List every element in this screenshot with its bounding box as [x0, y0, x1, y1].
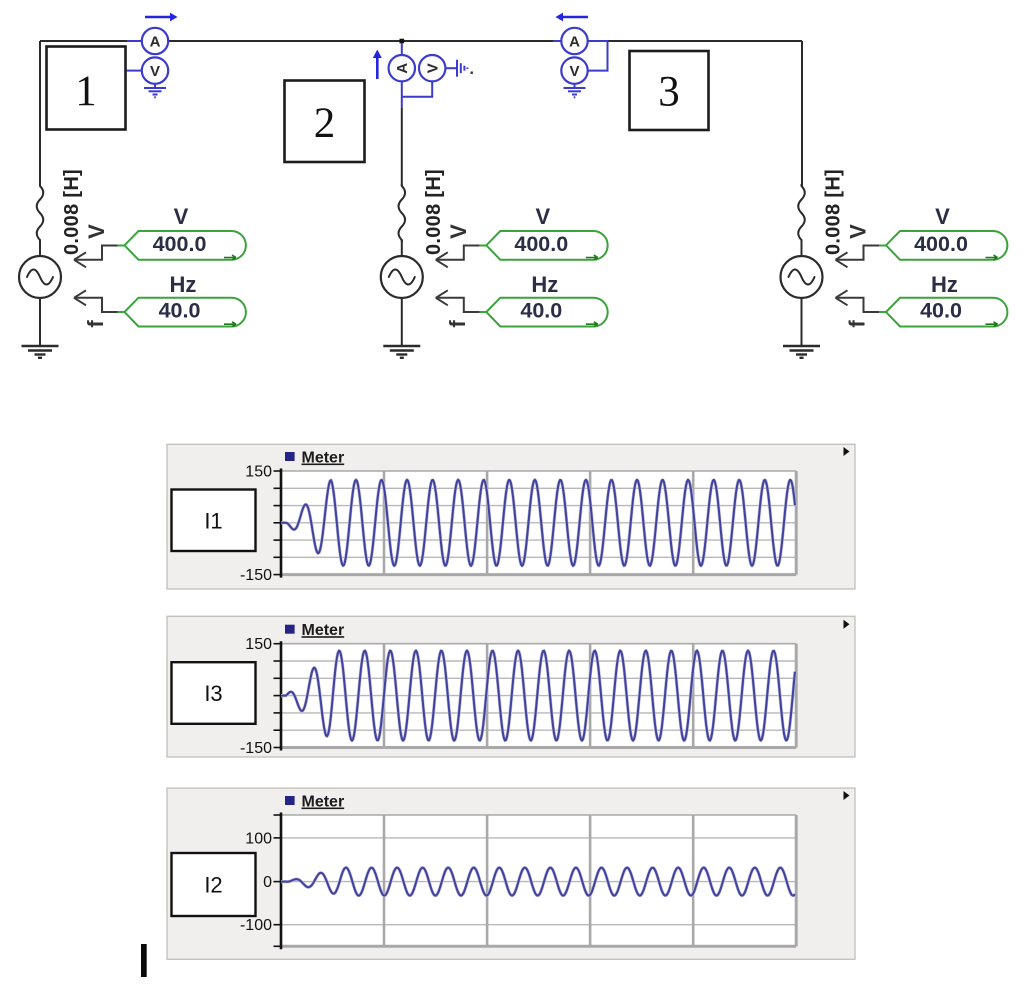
- meter panel I3: plot background: [281, 644, 796, 748]
- svg-text:-150: -150: [240, 740, 272, 757]
- waveform trace I2: [281, 868, 795, 896]
- svg-text:400.0: 400.0: [153, 232, 207, 256]
- subsystem box 2: [285, 81, 365, 163]
- svg-text:V: V: [935, 204, 950, 229]
- meter panel I2: signal label box: [172, 853, 256, 916]
- tiny dot right of sideways ground: [471, 72, 473, 74]
- blue current direction arrow (right) at meter 1: [145, 13, 178, 22]
- ground symbol branch 1: [22, 346, 59, 358]
- svg-text:V: V: [535, 204, 550, 229]
- meter panel I1: plot background: [281, 471, 796, 575]
- meter panel I3: plot border: [281, 644, 796, 748]
- waveform trace I1: [281, 480, 795, 566]
- meter panel I3: signal label box: [172, 662, 256, 724]
- svg-text:f: f: [445, 320, 470, 328]
- small ground under voltmeter 1: [144, 84, 166, 98]
- ground symbol branch 2: [383, 346, 420, 358]
- meter panel I2: frame: [167, 788, 855, 959]
- import arrow for V source setting, branch 3: [836, 246, 885, 268]
- meter panel I2: plot background: [281, 815, 796, 946]
- svg-text:f: f: [83, 320, 108, 328]
- small ground under voltmeter 3: [564, 84, 586, 98]
- svg-text:1: 1: [75, 68, 97, 115]
- subsystem box 1: [47, 47, 126, 130]
- green value tag V=400.0, branch 1: [125, 231, 246, 260]
- wire: source S2 to ground: [401, 298, 403, 346]
- meter panel I1: plot border: [281, 471, 796, 575]
- blue link joining meter pair bottoms, branch 2: [402, 81, 432, 108]
- green stub to V tag, branch 1: [118, 245, 126, 247]
- wire: coil to source S2: [401, 240, 403, 256]
- svg-text:A: A: [569, 33, 580, 50]
- svg-text:0.008 [H]: 0.008 [H]: [423, 169, 445, 255]
- wire: source S3 to ground: [801, 298, 803, 346]
- AC source S1: [19, 256, 61, 298]
- meter panel I2: vertical division lines: [384, 815, 693, 946]
- rotated ammeter A, branch 2: [389, 55, 415, 81]
- AC source S3: [781, 256, 823, 298]
- svg-text:0.008 [H]: 0.008 [H]: [823, 169, 845, 255]
- wire: branch 2 vertical below meters: [401, 108, 403, 186]
- blue wire from box 1 to voltmeter 1: [127, 70, 142, 72]
- wire: right vertical drop to branch 3: [801, 41, 803, 186]
- meter panel I3: vertical division lines: [384, 644, 693, 748]
- green stub to V tag, branch 2: [479, 245, 487, 247]
- inductor L1 0.008 H coil: [37, 184, 44, 242]
- meter panel I2: expand arrow top-right: [844, 791, 850, 800]
- blue stub right of voltmeter 2: [445, 67, 456, 69]
- ground symbol branch 3: [783, 346, 820, 358]
- svg-text:Hz: Hz: [170, 272, 197, 297]
- meter panel I1: expand arrow top-right: [844, 447, 850, 456]
- green stub to Hz tag, branch 1: [118, 311, 126, 313]
- meter panel I3: frame: [167, 616, 855, 757]
- blue stub from junction to rotated ammeter: [401, 43, 403, 55]
- green value tag V=400.0, branch 2: [486, 231, 607, 260]
- sideways ground right of voltmeter 2: [457, 60, 467, 77]
- meter panel I2: y axis labels: [240, 830, 272, 934]
- green value tag Hz=40.0, branch 2: [486, 298, 607, 327]
- svg-text:V: V: [150, 63, 160, 80]
- wire: main top bus from node 1 to node 3: [40, 40, 802, 42]
- svg-text:V: V: [425, 63, 442, 73]
- svg-text:Meter: Meter: [302, 450, 345, 467]
- meter panel I2: horizontal grid lines: [281, 838, 796, 925]
- import arrow for frequency setting, branch 1: [74, 290, 123, 312]
- text cursor mark bottom left: [141, 944, 147, 977]
- inductor L3 0.008 H coil: [798, 184, 805, 242]
- svg-text:Hz: Hz: [531, 272, 558, 297]
- green value tag Hz=40.0, branch 3: [886, 298, 1007, 327]
- blue wire stub left of ammeter 1: [127, 40, 142, 42]
- import arrow for V source setting, branch 2: [436, 246, 485, 268]
- green stub to Hz tag, branch 3: [879, 311, 887, 313]
- svg-text:Meter: Meter: [302, 794, 345, 811]
- meter panel I1: legend square: [285, 452, 295, 461]
- svg-text:3: 3: [658, 69, 680, 116]
- meter panel I1: signal label box: [172, 490, 256, 552]
- svg-text:40.0: 40.0: [520, 299, 562, 323]
- voltmeter V, branch 3: [561, 57, 587, 83]
- green stub to V tag, branch 3: [879, 245, 887, 247]
- ammeter A, branch 3: [561, 28, 587, 54]
- rotated voltmeter V, branch 2: [419, 55, 445, 81]
- green stub to Hz tag, branch 2: [479, 311, 487, 313]
- meter panel I1: frame: [167, 444, 855, 589]
- meter panel I2: y axis: [280, 813, 283, 950]
- subsystem box 3: [630, 51, 709, 130]
- blue current direction arrow (up) at meter 2: [373, 50, 382, 80]
- svg-text:150: 150: [245, 464, 272, 481]
- svg-text:2: 2: [314, 100, 336, 147]
- svg-text:400.0: 400.0: [914, 232, 968, 256]
- svg-text:-150: -150: [240, 567, 272, 584]
- svg-text:100: 100: [245, 830, 272, 847]
- green value tag V=400.0, branch 3: [886, 231, 1007, 260]
- node: junction dot on bus above branch 2: [400, 39, 405, 44]
- meter panel I1: vertical division lines: [384, 471, 693, 575]
- meter panel I1: y axis: [280, 469, 283, 578]
- svg-text:V: V: [174, 204, 189, 229]
- svg-text:400.0: 400.0: [514, 232, 568, 256]
- wire: coil to source S1: [39, 240, 41, 256]
- wire: source S1 to ground: [39, 298, 41, 346]
- meter panel I2: plot border: [281, 815, 796, 946]
- svg-text:Meter: Meter: [302, 622, 345, 639]
- svg-text:Hz: Hz: [931, 272, 958, 297]
- svg-text:40.0: 40.0: [159, 299, 201, 323]
- wire: coil to source S3: [801, 240, 803, 256]
- meter panel I1: y axis ticks: [274, 471, 282, 575]
- meter panel I2: legend square: [285, 796, 295, 805]
- meter panel I2: y axis ticks: [274, 815, 282, 946]
- svg-text:0.008 [H]: 0.008 [H]: [61, 169, 83, 255]
- meter panel I3: legend square: [285, 625, 295, 634]
- svg-text:V: V: [84, 224, 109, 239]
- import arrow for V source setting, branch 1: [74, 246, 123, 268]
- svg-text:V: V: [569, 63, 579, 80]
- AC source S2: [381, 256, 423, 298]
- svg-text:40.0: 40.0: [920, 299, 962, 323]
- svg-text:A: A: [394, 63, 411, 74]
- ammeter A, branch 1: [142, 28, 168, 54]
- meter panel I1: horizontal grid lines: [281, 488, 796, 557]
- meter panel I3: horizontal grid lines: [281, 661, 796, 730]
- blue wire stub left of ammeter 3: [553, 40, 561, 42]
- voltmeter V, branch 1: [142, 57, 168, 83]
- import arrow for frequency setting, branch 2: [436, 290, 485, 312]
- blue current direction arrow (left) at meter 3: [556, 13, 589, 22]
- inductor L2 0.008 H coil: [399, 184, 406, 242]
- meter panel I3: y axis ticks: [274, 644, 282, 748]
- wire: left vertical drop to branch 1: [39, 41, 41, 186]
- waveform trace I3: [281, 651, 795, 741]
- svg-text:-100: -100: [240, 917, 272, 934]
- svg-text:I2: I2: [204, 873, 222, 898]
- meter panel I3: expand arrow top-right: [844, 620, 850, 629]
- svg-text:V: V: [846, 224, 871, 239]
- green value tag Hz=40.0, branch 1: [125, 298, 246, 327]
- svg-text:150: 150: [245, 636, 272, 653]
- svg-text:f: f: [845, 320, 870, 328]
- svg-text:V: V: [446, 224, 471, 239]
- svg-text:A: A: [150, 33, 161, 50]
- meter panel I1: y axis labels: [240, 464, 272, 585]
- svg-text:0: 0: [263, 874, 272, 891]
- import arrow for frequency setting, branch 3: [836, 290, 885, 312]
- svg-text:I1: I1: [204, 508, 222, 533]
- meter panel I3: y axis: [280, 641, 283, 750]
- blue bracket joining ammeter and voltmeter 3: [588, 41, 608, 71]
- svg-text:I3: I3: [204, 681, 222, 706]
- meter panel I3: y axis labels: [240, 636, 272, 757]
